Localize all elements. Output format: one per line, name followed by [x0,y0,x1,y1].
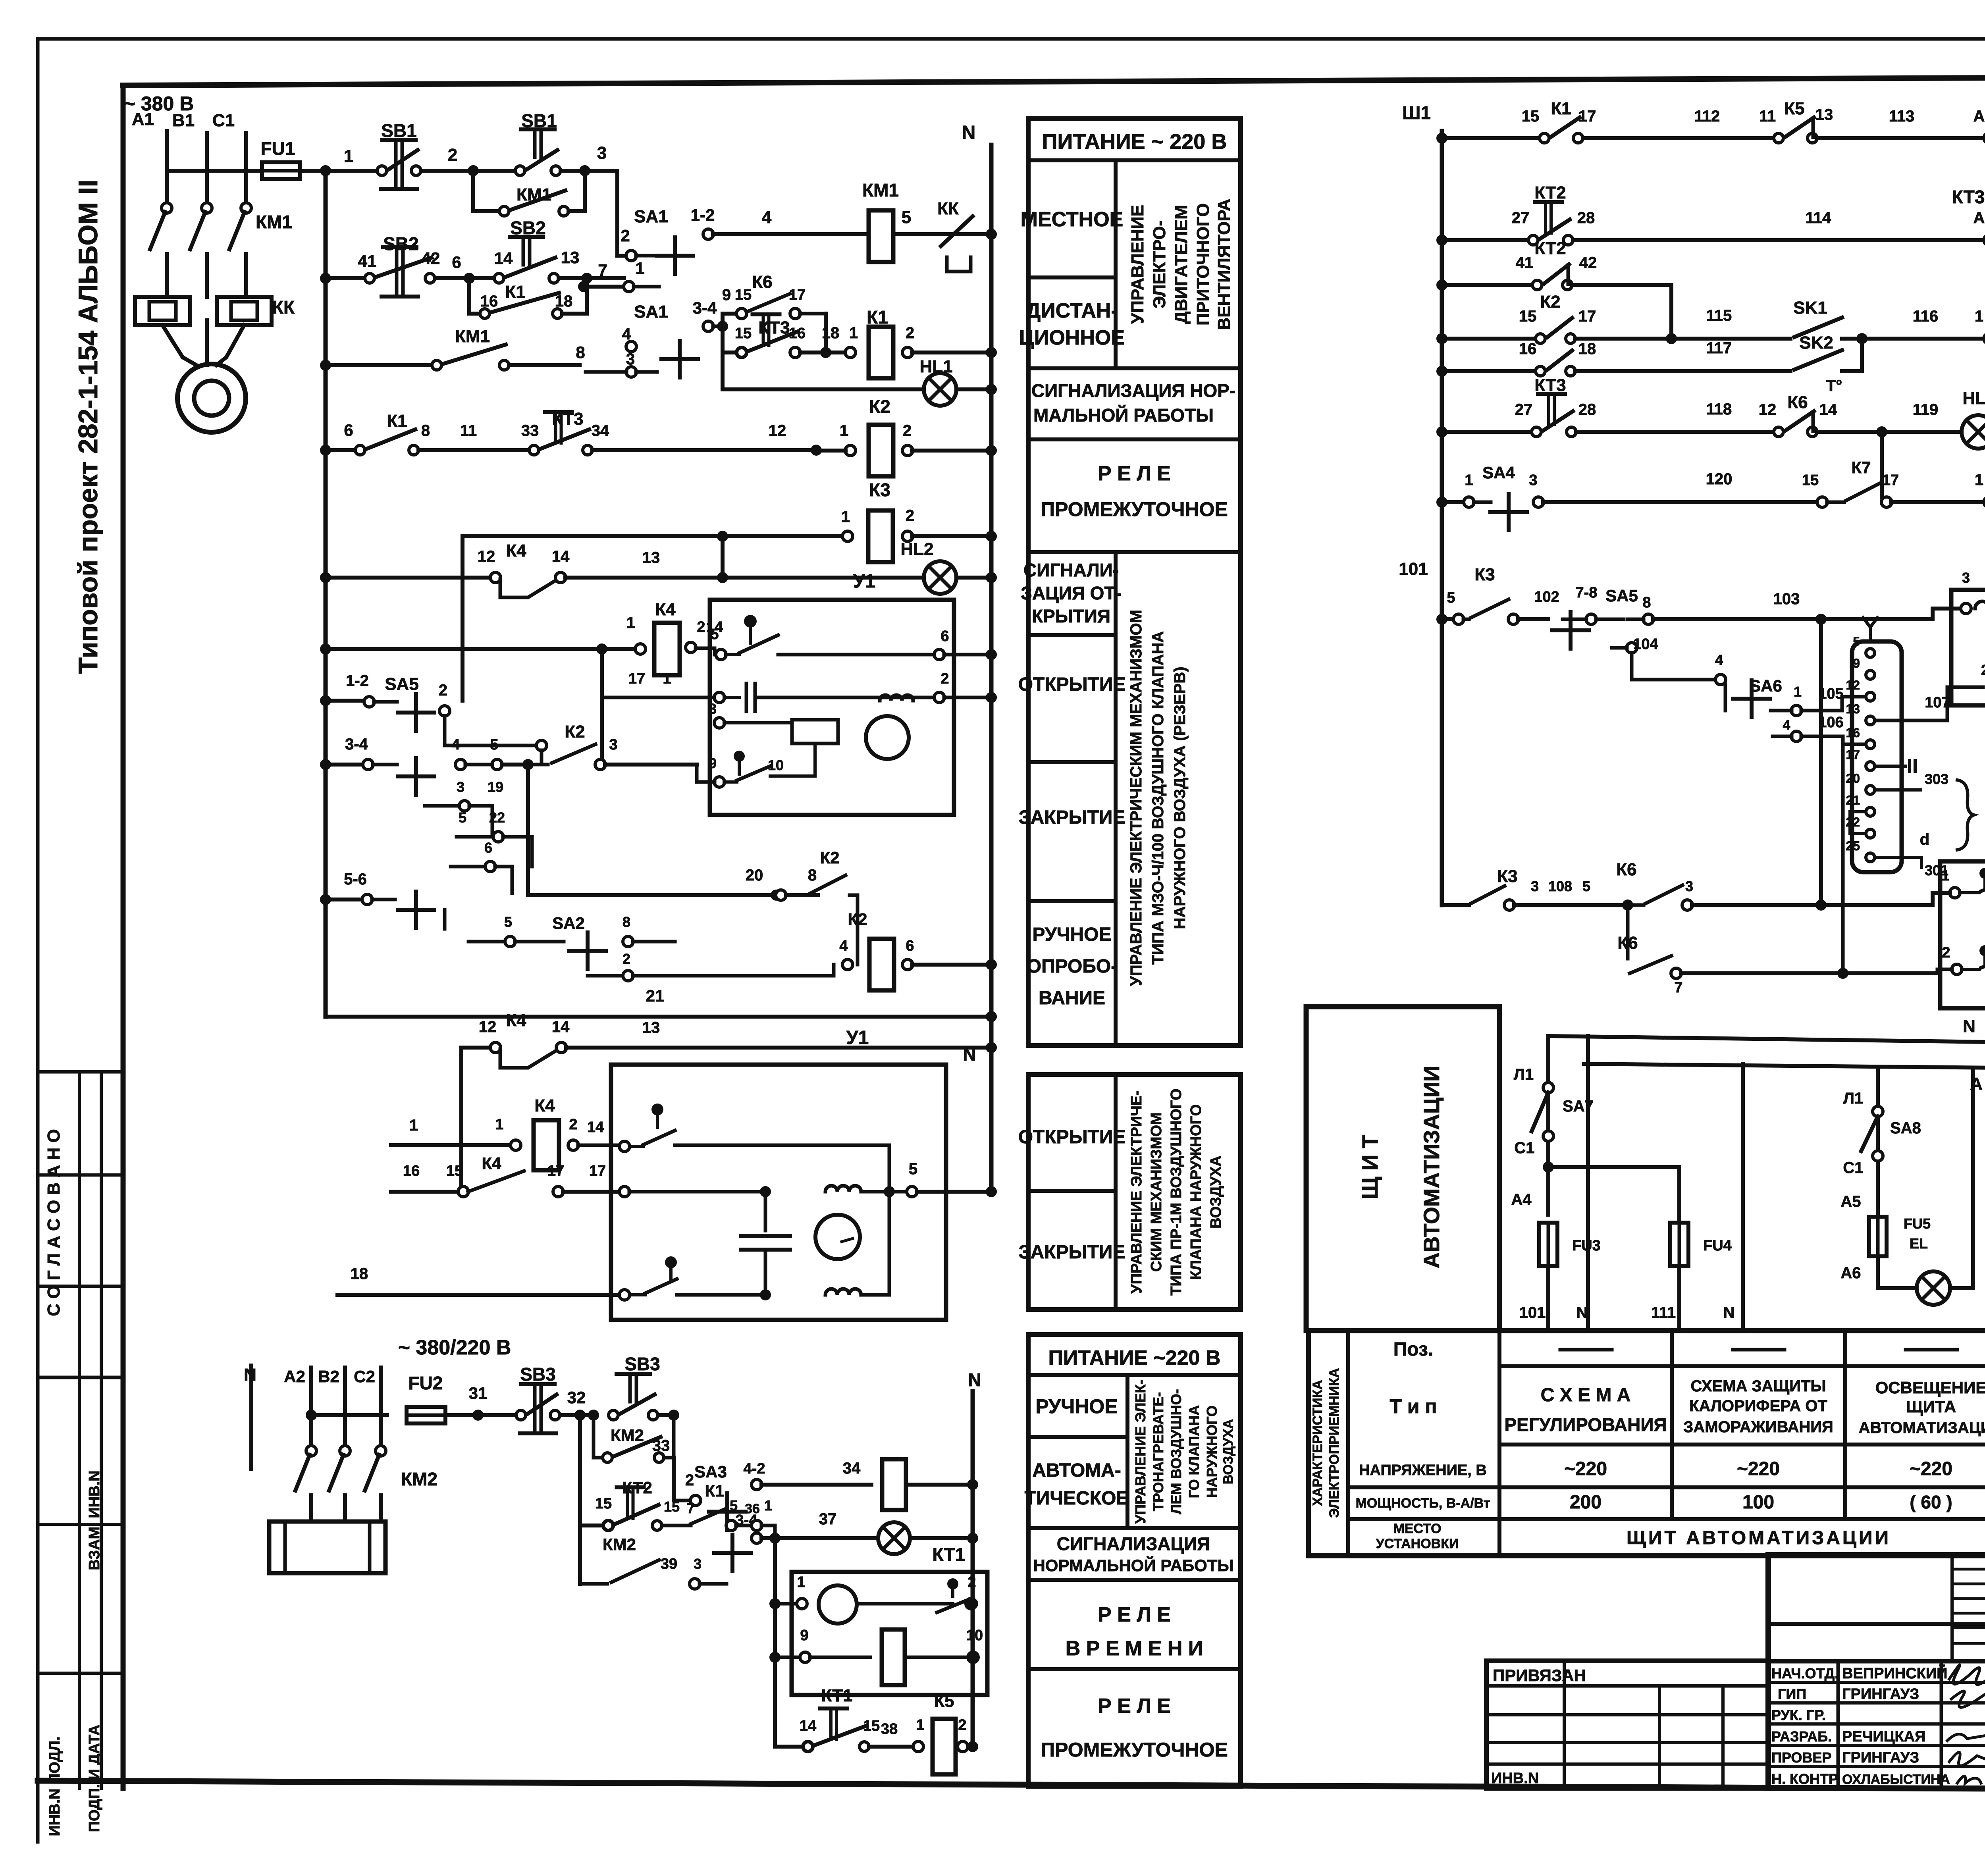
block У1 upper actuator box [710,600,954,815]
svg-text:3: 3 [1685,878,1693,894]
wire 104 SA6 stair [1627,643,1637,653]
contact KM2 low rung [578,1525,582,1584]
relay contact K1 bridge under SB2 [469,278,480,314]
svg-text:16: 16 [1846,726,1860,740]
svg-text:МАЛЬНОЙ РАБОТЫ: МАЛЬНОЙ РАБОТЫ [1033,405,1214,426]
У1 lower inductor bottom [825,1289,861,1295]
block KT1 time relay box [792,1572,987,1695]
table cell МЕСТНОЕ [1114,160,1118,368]
brace К термометру [1957,780,1974,850]
pin20 stub 303 [1875,788,1921,792]
title block small grid upper [1950,1555,1954,1661]
motor M1 circle [177,364,246,432]
svg-text:12: 12 [769,422,786,439]
svg-text:20: 20 [746,867,763,884]
wire to SA1 [585,169,617,173]
svg-text:КТ3: КТ3 [552,409,583,429]
У2 pin2 contact [1952,964,1962,975]
svg-text:6: 6 [906,938,914,954]
svg-text:ИНВ.N: ИНВ.N [1491,1770,1539,1787]
wire 4 to KM1 coil [713,232,868,236]
svg-text:ГИП: ГИП [1778,1686,1806,1702]
У2 pin1 contact [1950,888,1960,898]
svg-text:К5: К5 [1784,99,1804,118]
bridge K6 KT3 contacts [723,314,736,326]
svg-text:32: 32 [567,1388,586,1407]
svg-text:ПИТАНИЕ ~ 220 В: ПИТАНИЕ ~ 220 В [1042,130,1227,154]
svg-text:FU4: FU4 [1703,1237,1732,1254]
У1 upper inductor [880,695,913,701]
fuse FU5 [1869,1217,1887,1256]
svg-text:К4: К4 [534,1096,555,1115]
У1 upper pin 3 [714,718,725,728]
svg-text:8: 8 [808,867,817,884]
svg-text:15: 15 [1802,472,1819,489]
svg-text:КМ2: КМ2 [611,1426,644,1445]
svg-text:5: 5 [730,1497,738,1514]
svg-text:( 60 ): ( 60 ) [1910,1492,1952,1512]
title block: ПРИВЯЗАН attachment table [1486,1661,1768,1788]
table data dashes [1560,1348,1612,1352]
svg-text:3-4: 3-4 [345,736,368,753]
svg-text:К4: К4 [506,1011,526,1030]
svg-text:5: 5 [1853,634,1860,649]
svg-text:~ 380/220 В: ~ 380/220 В [398,1336,511,1359]
svg-text:SA3: SA3 [694,1462,727,1481]
svg-text:17: 17 [1882,472,1899,489]
connector pin 17 [1866,762,1875,770]
coil K2 cluster [842,959,853,970]
svg-text:ВЕПРИНСКИЙ: ВЕПРИНСКИЙ [1842,1664,1947,1682]
svg-text:16: 16 [403,1163,420,1179]
svg-text:104: 104 [1633,636,1658,653]
svg-text:ВОЗДУХА: ВОЗДУХА [1221,1419,1236,1484]
svg-text:2: 2 [569,1116,577,1133]
svg-text:ДИСТАН-: ДИСТАН- [1026,299,1118,322]
svg-text:К2: К2 [1540,292,1560,312]
svg-text:ЭЛЕКТРОПРИЕМНИКА: ЭЛЕКТРОПРИЕМНИКА [1327,1368,1342,1518]
svg-text:31: 31 [469,1384,488,1402]
svg-text:200: 200 [1570,1492,1601,1513]
У1 lower motor [815,1215,860,1259]
svg-text:КТ3: КТ3 [1534,376,1566,395]
svg-text:В Р Е М Е Н И: В Р Е М Е Н И [1066,1637,1203,1660]
svg-text:КК: КК [937,199,959,218]
svg-text:8: 8 [1642,594,1651,611]
svg-text:12: 12 [1759,401,1777,418]
svg-text:К2: К2 [820,848,840,867]
svg-text:К6: К6 [1787,393,1808,412]
svg-text:3: 3 [1529,472,1537,489]
svg-text:33: 33 [652,1437,670,1454]
coil K2 [845,445,856,456]
svg-text:12: 12 [479,1018,497,1036]
svg-text:1: 1 [1465,472,1473,489]
svg-text:17: 17 [589,1163,606,1179]
title block horizontal lines [1768,1622,1985,1626]
svg-text:SA8: SA8 [1890,1119,1921,1137]
svg-text:1: 1 [916,1717,924,1733]
svg-text:В1: В1 [172,111,195,130]
border frame main rectangle [123,75,1985,85]
У1 lower capacitor [764,1192,767,1231]
svg-text:4-2: 4-2 [744,1460,765,1477]
svg-text:303: 303 [1925,771,1948,787]
svg-text:ЗАМОРАЖИВАНИЯ: ЗАМОРАЖИВАНИЯ [1683,1418,1833,1436]
svg-text:N: N [1723,1304,1735,1321]
svg-text:С Х Е М А: С Х Е М А [1541,1385,1631,1406]
switch SA8 [1873,1106,1883,1117]
svg-text:17: 17 [1846,747,1860,762]
svg-text:РУЧНОЕ: РУЧНОЕ [1035,1395,1118,1418]
svg-text:ОПРОБО-: ОПРОБО- [1027,956,1117,977]
svg-text:СКИМ МЕХАНИЗМОМ: СКИМ МЕХАНИЗМОМ [1148,1112,1165,1271]
svg-text:КТ2: КТ2 [1534,183,1566,202]
svg-text:ПРОМЕЖУТОЧНОЕ: ПРОМЕЖУТОЧНОЕ [1041,498,1228,520]
coil K5 [933,1719,956,1774]
svg-text:Р Е Л Е: Р Е Л Е [1098,1695,1171,1718]
svg-text:2: 2 [940,670,949,687]
svg-text:3: 3 [1962,570,1970,586]
rung KT1 contact K5 coil [775,1745,803,1749]
У1 lower pin1 contact [619,1141,630,1152]
svg-text:ВЕНТИЛЯТОРА: ВЕНТИЛЯТОРА [1214,198,1234,330]
svg-text:12: 12 [478,548,495,565]
svg-text:РАЗРАБ.: РАЗРАБ. [1771,1728,1832,1745]
coil K4 rung [320,643,331,655]
svg-text:А: А [1973,108,1985,125]
coil K3 rung [463,534,843,538]
svg-text:101: 101 [1519,1304,1546,1321]
svg-text:ХАРАКТЕРИСТИКА: ХАРАКТЕРИСТИКА [1310,1380,1325,1506]
svg-text:С1: С1 [212,111,235,130]
svg-text:12: 12 [1846,678,1860,692]
svg-text:ЗАЦИЯ ОТ-: ЗАЦИЯ ОТ- [1021,583,1122,603]
svg-text:2: 2 [967,1574,976,1591]
svg-text:FU1: FU1 [261,138,295,159]
pin25 stub 301 [1875,857,1921,867]
svg-text:ЩИТ АВТОМАТИЗАЦИИ: ЩИТ АВТОМАТИЗАЦИИ [1627,1527,1891,1549]
svg-text:3: 3 [1531,878,1539,894]
svg-text:14: 14 [1819,401,1837,418]
svg-text:ОТКРЫТИЕ: ОТКРЫТИЕ [1018,674,1126,695]
svg-text:102: 102 [1534,589,1559,605]
svg-text:Р Е Л Е: Р Е Л Е [1098,462,1171,485]
lamp EL [1876,1256,1880,1288]
svg-text:А1: А1 [132,110,154,129]
wire: SA7 branch vertical [1546,1036,1550,1215]
svg-text:1: 1 [1794,684,1802,700]
svg-text:Н. КОНТР: Н. КОНТР [1771,1771,1838,1787]
connector pin 16 [1866,740,1875,749]
svg-text:ОСВЕЩЕНИЕ: ОСВЕЩЕНИЕ [1875,1378,1985,1397]
svg-text:SK2: SK2 [1799,333,1833,352]
svg-text:АВТОМАТИЗАЦИИ: АВТОМАТИЗАЦИИ [1859,1419,1985,1437]
svg-text:Т и п: Т и п [1389,1395,1437,1418]
svg-text:112: 112 [1694,108,1720,125]
svg-text:Р Е Л Е: Р Е Л Е [1098,1603,1171,1626]
svg-text:1: 1 [764,1497,772,1514]
svg-text:3: 3 [609,736,617,753]
svg-text:ПРОВЕР: ПРОВЕР [1771,1749,1831,1766]
svg-text:6: 6 [344,421,353,439]
svg-text:Л1: Л1 [1514,1066,1534,1083]
svg-text:ГО КЛАПАНА: ГО КЛАПАНА [1186,1405,1202,1498]
svg-text:ТРОНАГРЕВАТЕ-: ТРОНАГРЕВАТЕ- [1150,1392,1166,1511]
svg-text:SB2: SB2 [510,218,545,238]
table cell ЗАКРЫТИЕ [1028,899,1116,903]
svg-text:2: 2 [697,619,705,636]
svg-text:SB1: SB1 [521,110,557,131]
svg-text:19: 19 [488,779,503,795]
svg-text:К1: К1 [387,411,407,431]
wire: column N drop 2 [1741,1064,1745,1331]
svg-text:1-2: 1-2 [346,672,369,690]
svg-text:8: 8 [576,343,585,362]
svg-text:2: 2 [1942,944,1950,961]
svg-text:42: 42 [1579,254,1597,272]
contactor KM1 aux rung [320,360,331,371]
connector X1 [1852,641,1902,872]
contactor KM1 main contacts [162,203,172,213]
svg-text:1: 1 [663,670,671,687]
svg-text:SB3: SB3 [520,1364,555,1385]
svg-text:ПРОМЕЖУТОЧНОЕ: ПРОМЕЖУТОЧНОЕ [1041,1739,1228,1761]
svg-text:К4: К4 [506,541,526,560]
svg-text:К7: К7 [1852,458,1871,477]
У1 upper pin 9 contact [714,777,725,787]
svg-text:10: 10 [966,1627,983,1644]
svg-text:ОТКРЫТИЕ: ОТКРЫТИЕ [1018,1127,1126,1148]
svg-text:А6: А6 [1840,1264,1861,1282]
svg-text:РУК. ГР.: РУК. ГР. [1771,1707,1826,1723]
svg-text:А5: А5 [1840,1193,1861,1210]
svg-text:103: 103 [1773,590,1800,608]
svg-text:ТИПА ПР-1М ВОЗДУШНОГО: ТИПА ПР-1М ВОЗДУШНОГО [1168,1088,1185,1295]
svg-text:3-4: 3-4 [693,299,717,317]
svg-text:1: 1 [635,259,644,277]
table cell РУЧНОЕ [1125,1375,1129,1528]
pin21 pin22 wires [1842,744,1843,834]
contactor KM2 aux bridge [594,1415,603,1458]
svg-text:Т°: Т° [1826,377,1842,395]
svg-text:УПРАВЛЕНИЕ: УПРАВЛЕНИЕ [1128,205,1147,324]
svg-text:N: N [962,122,976,143]
svg-text:100: 100 [1742,1492,1774,1513]
lamp HL1 rung [721,352,725,389]
svg-text:МЕСТНОЕ: МЕСТНОЕ [1021,208,1124,231]
contact K2 in cluster [528,763,548,767]
svg-text:17: 17 [789,287,806,303]
svg-text:4: 4 [1783,718,1790,733]
KT1 contact right [947,1578,958,1589]
title block frame [1768,1555,1985,1788]
svg-text:18: 18 [351,1265,368,1283]
wire rung1 right [326,169,377,173]
svg-text:14: 14 [494,249,513,268]
left margin stamp boxes [38,1070,123,1074]
svg-text:5: 5 [504,914,512,930]
svg-text:КМ2: КМ2 [401,1469,437,1489]
svg-text:18: 18 [555,293,573,310]
svg-text:А4: А4 [1511,1191,1532,1208]
svg-text:4: 4 [1715,652,1723,668]
svg-text:28: 28 [1577,209,1595,227]
svg-text:SB1: SB1 [381,120,416,141]
rung 15 K2 17 SK1 K6 [1436,333,1447,344]
svg-text:ЦИОННОЕ: ЦИОННОЕ [1019,326,1125,349]
svg-text:13: 13 [642,549,660,566]
svg-text:16: 16 [480,293,498,310]
svg-text:1: 1 [797,1574,805,1591]
svg-text:Щ И Т: Щ И Т [1357,1135,1382,1200]
svg-text:А: А [1973,209,1985,227]
svg-text:3: 3 [597,143,607,163]
svg-text:N: N [1963,1017,1975,1036]
У1 lower inductor top [825,1186,861,1192]
svg-text:А2: А2 [284,1367,305,1386]
svg-text:ОХЛАБЫСТИНА: ОХЛАБЫСТИНА [1842,1772,1950,1787]
svg-text:РЕГУЛИРОВАНИЯ: РЕГУЛИРОВАНИЯ [1505,1414,1667,1435]
wire: N bus to panel [1548,1036,1985,1042]
svg-text:К2: К2 [848,910,867,928]
table row СИГНАЛИЗАЦИЯ НОРМАЛЬНОЙ РАБОТЫ 2 [1028,1526,1241,1530]
table: left description column 2 frame [1028,1075,1241,1310]
svg-text:ДВИГАТЕЛЕМ: ДВИГАТЕЛЕМ [1172,205,1191,324]
svg-text:113: 113 [1889,108,1915,125]
rung KT2 KT3 [1436,235,1447,246]
svg-text:К3: К3 [1497,867,1517,886]
svg-text:2: 2 [906,324,914,342]
svg-text:ВОЗДУХА: ВОЗДУХА [1208,1156,1224,1229]
rung K1 K5 KT2 [1436,133,1447,144]
svg-text:114: 114 [1806,209,1831,227]
svg-text:ТИЧЕСКОЕ: ТИЧЕСКОЕ [1025,1488,1129,1509]
svg-text:2: 2 [448,145,457,165]
svg-text:ЗАКРЫТИЕ: ЗАКРЫТИЕ [1019,1242,1125,1263]
svg-text:СИГНАЛИЗАЦИЯ НОР-: СИГНАЛИЗАЦИЯ НОР- [1031,380,1235,401]
vertical KT1 left bus [773,1538,777,1747]
svg-text:2: 2 [958,1717,966,1733]
svg-text:7-8: 7-8 [1576,584,1598,601]
rung 12 K4 14 13 HL2 [320,572,331,583]
fuse FU3 [1539,1223,1557,1266]
svg-text:1: 1 [626,614,635,632]
KT1 coil [769,1652,781,1663]
coil KM2 [882,1459,906,1510]
wire: A bus to panel [1584,1064,1985,1068]
svg-text:16: 16 [1519,340,1537,358]
svg-text:ПИТАНИЕ ~220 В: ПИТАНИЕ ~220 В [1048,1346,1221,1369]
switch SA7 [1543,1082,1553,1093]
svg-text:118: 118 [1706,401,1732,418]
svg-text:15: 15 [735,325,752,342]
svg-text:15: 15 [1519,308,1537,325]
vertical K4 feed [600,649,604,765]
svg-text:ИНВ.N ПОДЛ.: ИНВ.N ПОДЛ. [46,1736,63,1836]
svg-text:17: 17 [628,670,645,687]
connector pin 21 [1866,807,1875,816]
svg-text:КТ1: КТ1 [933,1544,966,1565]
svg-text:РЕЧИЦКАЯ: РЕЧИЦКАЯ [1842,1728,1925,1745]
svg-text:8: 8 [421,422,430,439]
svg-text:1: 1 [1941,867,1949,884]
svg-text:3: 3 [457,779,464,795]
push button SB3 start [609,1374,658,1420]
table cell СИГНАЛИЗАЦИЯ ОТКРЫТИЯ [1114,552,1118,1046]
table row РЕЛЕ ПРОМЕЖУТОЧНОЕ 2 [1028,1667,1241,1671]
svg-text:14: 14 [552,548,570,565]
svg-text:ВЗАМ. ИНВ.N: ВЗАМ. ИНВ.N [86,1470,103,1570]
svg-text:17: 17 [547,1163,564,1179]
svg-text:АВТОМА-: АВТОМА- [1032,1460,1121,1481]
svg-text:6: 6 [940,628,949,645]
svg-text:НАРУЖНОГО: НАРУЖНОГО [1204,1406,1220,1498]
svg-text:EL: EL [1910,1235,1928,1252]
svg-text:2: 2 [903,422,912,439]
svg-text:1: 1 [495,1116,503,1133]
svg-text:ТИПА МЗО-Ч/100 ВОЗДУШНОГО КЛАП: ТИПА МЗО-Ч/100 ВОЗДУШНОГО КЛАПАНА [1149,631,1167,965]
svg-text:1-2: 1-2 [691,206,715,224]
svg-text:КТ1: КТ1 [821,1686,852,1705]
svg-text:10: 10 [768,757,784,773]
svg-text:ЗАКРЫТИЕ: ЗАКРЫТИЕ [1019,807,1125,828]
coil K1 [845,347,856,358]
block У1 lower actuator box [611,1065,946,1320]
svg-text:Ш1: Ш1 [1402,102,1431,123]
svg-text:5: 5 [909,1160,917,1178]
svg-text:7: 7 [687,1500,695,1516]
svg-text:5: 5 [1582,878,1590,894]
svg-text:33: 33 [521,422,539,439]
svg-text:9: 9 [1853,656,1860,670]
svg-text:С О Г Л А С О В А Н О: С О Г Л А С О В А Н О [44,1129,64,1316]
svg-text:7: 7 [1674,979,1682,996]
svg-text:14: 14 [587,1119,604,1136]
svg-text:АВТОМАТИЗАЦИИ: АВТОМАТИЗАЦИИ [1419,1066,1444,1269]
svg-text:5-6: 5-6 [344,871,367,888]
svg-text:HL4: HL4 [1962,389,1985,408]
table row: ПИТАНИЕ 220В header [1028,158,1241,162]
svg-text:SA2: SA2 [552,914,585,932]
svg-text:КК: КК [272,297,295,318]
svg-text:N: N [968,1369,981,1390]
table: left description column 3 frame [1028,1335,1241,1786]
rung SA4 K7 [1436,497,1447,508]
svg-text:28: 28 [1578,401,1596,418]
svg-text:SB2: SB2 [383,233,418,254]
bus to FU2 [306,1410,317,1421]
wire: SA8 branch vertical [1876,1068,1880,1213]
vertical cluster feed [526,765,530,895]
svg-text:1: 1 [1975,308,1983,325]
svg-text:108: 108 [1548,878,1572,894]
svg-text:25: 25 [1846,839,1860,853]
svg-text:36: 36 [745,1501,760,1516]
svg-text:22: 22 [489,809,505,826]
svg-text:УПРАВЛЕНИЕ ЭЛЕК-: УПРАВЛЕНИЕ ЭЛЕК- [1132,1380,1149,1524]
svg-text:101: 101 [1399,559,1428,579]
svg-text:20: 20 [1846,771,1860,786]
rung SA5 1-2 [320,695,331,706]
heater block [269,1522,385,1573]
svg-text:18: 18 [1578,340,1596,358]
svg-text:2: 2 [621,226,630,245]
thermal relay KK heater elements [135,297,190,325]
svg-text:К5: К5 [934,1691,954,1711]
rung SA2 5-6 [320,894,331,905]
contact K3 bottom [1442,903,1469,907]
